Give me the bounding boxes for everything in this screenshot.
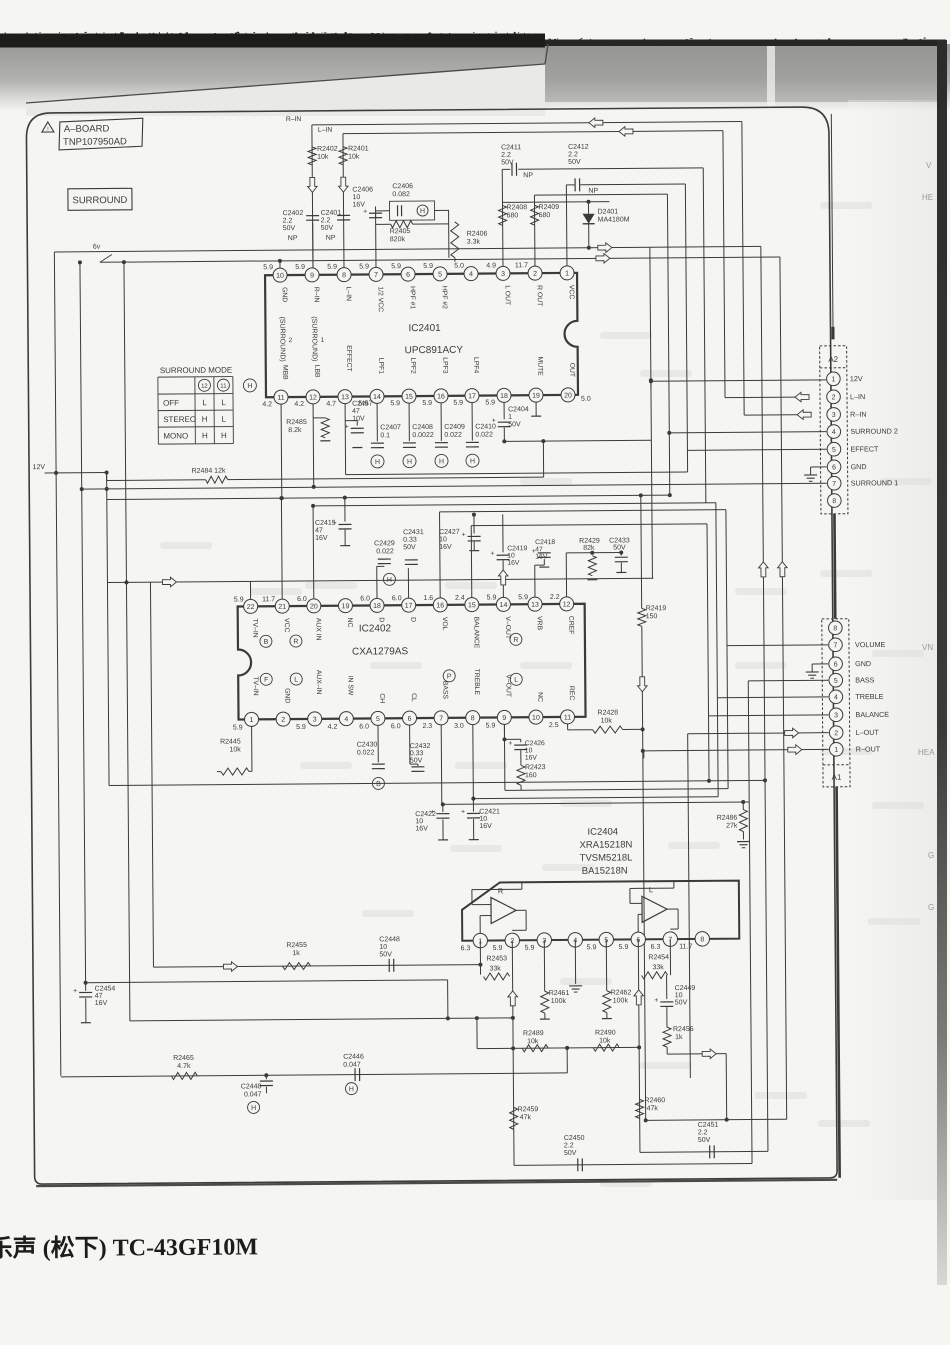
- resistor R2460 47k: [636, 1099, 644, 1118]
- IC2402 pin 21: [275, 599, 289, 613]
- svg-text:L: L: [221, 398, 226, 407]
- wire balance to A1: [709, 714, 829, 717]
- svg-text:2: 2: [533, 271, 537, 278]
- connector A2 dashed box: [820, 346, 848, 514]
- svg-text:6v: 6v: [93, 244, 101, 251]
- svg-text:4.7: 4.7: [326, 401, 336, 408]
- wire pin1 top vertical: [565, 185, 568, 266]
- svg-text:+: +: [508, 740, 512, 747]
- svg-text:22: 22: [247, 604, 255, 611]
- svg-text:MBB: MBB: [281, 365, 288, 380]
- svg-text:4: 4: [344, 716, 348, 723]
- warning triangle symbol: [42, 122, 54, 132]
- svg-text:GND: GND: [283, 688, 290, 703]
- svg-text:B: B: [376, 781, 381, 788]
- svg-text:5.9: 5.9: [295, 264, 305, 271]
- svg-text:R2454: R2454: [648, 954, 669, 961]
- IC2402 pin 13: [528, 597, 542, 611]
- svg-text:R: R: [293, 639, 298, 646]
- connector A1 pin 6 GND: [829, 657, 843, 671]
- svg-text:680: 680: [539, 212, 551, 219]
- svg-text:R2409: R2409: [539, 204, 560, 211]
- svg-text:5.9: 5.9: [263, 264, 273, 271]
- wire nested y512: [440, 510, 726, 512]
- capacitor C2446 0.047 series: [354, 1068, 356, 1081]
- capacitor C2431 0.33 50V: [407, 568, 409, 598]
- svg-text:A2: A2: [828, 355, 838, 364]
- svg-text:10: 10: [532, 715, 540, 722]
- svg-text:乐声 (松下) TC-43GF10M: 乐声 (松下) TC-43GF10M: [0, 1232, 258, 1262]
- IC2404 pin 7: [663, 932, 678, 947]
- scan top black band: [0, 34, 545, 48]
- svg-text:C2429: C2429: [374, 540, 395, 547]
- IC2402 pin 16: [433, 598, 447, 612]
- wire x642 drop bottom: [642, 626, 646, 1120]
- svg-text:7: 7: [439, 715, 443, 722]
- svg-text:6.3: 6.3: [651, 944, 661, 951]
- wire bass to A1: [748, 679, 828, 682]
- svg-text:C2451: C2451: [698, 1122, 719, 1129]
- svg-text:11: 11: [220, 384, 227, 390]
- capacitor C2406 10 16V: [369, 212, 382, 214]
- svg-text:STEREO: STEREO: [163, 415, 196, 424]
- arrow on second rail: [596, 253, 610, 263]
- svg-text:C2407: C2407: [380, 424, 401, 431]
- IC2402 pin 3: [308, 712, 322, 726]
- svg-text:2: 2: [832, 394, 836, 401]
- connector A2 pin 2 L–IN: [827, 390, 841, 404]
- wire L-IN to A2 pin2 horizontal: [725, 396, 809, 399]
- node pin12 surround1: [312, 485, 316, 489]
- resistor R2402 10k: [308, 147, 316, 165]
- capacitor C2421 10 16V: [472, 799, 474, 812]
- svg-text:C2415: C2415: [315, 520, 336, 527]
- wire x564 drop: [566, 1048, 568, 1073]
- capacitor C2404 1 50V: [503, 402, 505, 419]
- svg-text:8.2k: 8.2k: [288, 427, 302, 434]
- wire long vertical x783: [780, 257, 787, 1119]
- resistor R2490 10k: [593, 1044, 619, 1051]
- wire pin6 drop: [638, 939, 640, 1152]
- svg-text:L–OUT: L–OUT: [856, 728, 880, 737]
- svg-text:HEA: HEA: [918, 748, 935, 757]
- audio IC IC2402 CXA1279AS body: [238, 604, 586, 720]
- wire R2484 line right: [228, 477, 544, 479]
- IC2402 pin 6: [402, 711, 416, 725]
- node C2404 bottom: [502, 439, 506, 443]
- svg-text:19: 19: [532, 393, 540, 400]
- svg-text:L: L: [514, 677, 518, 684]
- wire left vertical x108: [107, 473, 109, 786]
- wire C2457 stub: [356, 421, 358, 426]
- wire L-IN horizontal: [343, 131, 723, 134]
- op-amp L of IC2404: [642, 896, 667, 922]
- node D2401 top: [586, 200, 590, 204]
- capacitor C2449 10 50V: [666, 975, 668, 999]
- arrow on 6v rail: [598, 243, 612, 253]
- svg-text:VOLUME: VOLUME: [855, 640, 886, 649]
- node pin22 feed x127: [124, 580, 128, 584]
- resistor R2489 10k: [522, 1045, 548, 1052]
- node y799 C2421: [471, 797, 475, 801]
- svg-text:6: 6: [408, 716, 412, 723]
- svg-text:50V: 50V: [321, 225, 334, 232]
- svg-text:2.2: 2.2: [550, 594, 560, 601]
- node pin21: [279, 496, 283, 500]
- IC2402 pin 11: [560, 710, 574, 724]
- arrow on R-IN wire: [589, 118, 603, 128]
- svg-text:2.2: 2.2: [564, 1142, 574, 1149]
- wire pin3 top vertical: [501, 169, 504, 266]
- svg-text:160: 160: [525, 772, 537, 779]
- node surround1 x108: [105, 487, 109, 491]
- arrow near A2 pin2: [795, 392, 809, 402]
- arrow on pin22 feed: [162, 577, 176, 587]
- wire loop bottom: [667, 1053, 726, 1055]
- svg-text:6.0: 6.0: [360, 595, 370, 602]
- svg-text:R2453: R2453: [486, 955, 507, 962]
- svg-text:H: H: [202, 431, 208, 440]
- svg-text:8: 8: [832, 498, 836, 505]
- node bus783 x764: [763, 778, 767, 782]
- svg-text:6: 6: [832, 464, 836, 471]
- wire treble riser: [716, 698, 719, 797]
- svg-text:10k: 10k: [599, 1038, 611, 1045]
- wire pin20 riser: [312, 506, 315, 599]
- H mark near table: [243, 379, 256, 392]
- svg-text:4.7k: 4.7k: [177, 1063, 191, 1070]
- svg-text:OFF: OFF: [163, 398, 179, 407]
- svg-text:8: 8: [342, 272, 346, 279]
- svg-text:5.9: 5.9: [296, 724, 306, 731]
- wire lout to A1: [688, 733, 829, 734]
- svg-text:3: 3: [832, 412, 836, 419]
- connector A1 pin 4 TREBLE: [829, 690, 843, 704]
- svg-text:5: 5: [438, 271, 442, 278]
- svg-text:17: 17: [468, 393, 476, 400]
- svg-text:+: +: [73, 988, 77, 995]
- svg-text:50V: 50V: [410, 757, 423, 764]
- svg-text:NP: NP: [588, 188, 598, 195]
- resistor R2456 1k: [663, 1027, 671, 1047]
- svg-text:5.9: 5.9: [391, 263, 401, 270]
- connector A2 pin 6 GND: [827, 460, 841, 474]
- svg-text:+: +: [654, 997, 658, 1004]
- svg-text:3.0: 3.0: [454, 723, 464, 730]
- resistor R2405 820k: [391, 221, 413, 228]
- arrow near A2 pin3: [797, 410, 811, 420]
- wire lout corner: [688, 734, 691, 1078]
- IC2401 pin 20: [561, 388, 575, 402]
- svg-text:47: 47: [535, 546, 543, 553]
- overlapping page corner (white area below diagonal edge): [26, 64, 545, 116]
- svg-text:A1: A1: [832, 773, 842, 782]
- svg-text:5: 5: [832, 447, 836, 454]
- node pin2 y1018: [511, 1016, 515, 1020]
- IC2404 pin 4: [568, 933, 583, 948]
- svg-text:15: 15: [468, 602, 476, 609]
- svg-text:4.2: 4.2: [262, 401, 272, 408]
- resistor R2459 47k: [510, 1107, 518, 1129]
- wire bus y791: [505, 789, 728, 791]
- wire surround2 row: [107, 495, 670, 499]
- svg-text:16V: 16V: [507, 560, 520, 567]
- svg-text:11: 11: [564, 714, 571, 721]
- connector A2 pin 5 EFFECT: [827, 442, 841, 456]
- wire pin7 drop: [669, 939, 671, 975]
- IC2401 pin 7: [369, 267, 383, 281]
- capacitor C2450 2.2 50V: [577, 1158, 579, 1171]
- svg-text:C2448: C2448: [379, 936, 400, 943]
- node pin1 y965: [478, 963, 482, 967]
- svg-text:R2455: R2455: [286, 942, 307, 949]
- svg-text:+: +: [345, 424, 349, 431]
- svg-text:4.9: 4.9: [486, 262, 496, 269]
- node y1122 x723: [725, 1118, 729, 1122]
- svg-text:33k: 33k: [652, 964, 664, 971]
- svg-text:(SURROUND): (SURROUND): [278, 317, 285, 362]
- wire y980 rail: [86, 980, 448, 983]
- svg-text:C2412: C2412: [568, 144, 589, 151]
- capacitor C2448 0.047 shunt: [264, 1073, 268, 1077]
- svg-text:5.9: 5.9: [619, 944, 629, 951]
- resistor R2453 33k: [484, 973, 510, 980]
- wire rout corner: [643, 751, 645, 758]
- svg-text:100k: 100k: [613, 997, 629, 1004]
- svg-text:12V: 12V: [850, 374, 863, 383]
- svg-text:2.2: 2.2: [283, 218, 293, 225]
- svg-text:R2459: R2459: [518, 1106, 539, 1113]
- svg-text:R2423: R2423: [525, 764, 546, 771]
- right margin gray: [848, 100, 937, 1200]
- svg-text:2.3: 2.3: [422, 723, 432, 730]
- svg-text:6.0: 6.0: [392, 595, 402, 602]
- svg-text:R2462: R2462: [611, 989, 632, 996]
- svg-text:AUX–IN: AUX–IN: [315, 670, 322, 695]
- svg-text:1k: 1k: [675, 1034, 683, 1041]
- svg-text:4.2: 4.2: [328, 724, 338, 731]
- wire 6v rail: [54, 246, 760, 252]
- connector A1 pin 1 R–OUT: [829, 742, 843, 756]
- connector A1 pin 3 BALANCE: [829, 708, 843, 722]
- resistor R2419 150: [638, 608, 646, 626]
- svg-text:SURROUND 1: SURROUND 1: [851, 478, 899, 487]
- wire bottom y1154: [640, 1151, 768, 1152]
- svg-text:C2421: C2421: [479, 808, 500, 815]
- wire x445 drop: [447, 980, 449, 1018]
- svg-text:1/2 VCC: 1/2 VCC: [377, 286, 384, 312]
- IC2401 pin 12: [306, 390, 320, 404]
- IC2401 pin 17: [465, 389, 479, 403]
- A-BOARD title box: [59, 118, 143, 150]
- arrow up on x764: [759, 562, 769, 577]
- svg-text:8: 8: [471, 715, 475, 722]
- connector A2 pin 7 SURROUND 1: [827, 476, 841, 490]
- svg-text:6.0: 6.0: [359, 723, 369, 730]
- svg-text:LPF3: LPF3: [441, 357, 448, 374]
- svg-text:1: 1: [508, 414, 512, 421]
- svg-text:R2429: R2429: [579, 538, 600, 545]
- svg-text:LPF1: LPF1: [377, 358, 384, 375]
- svg-text:B: B: [264, 639, 269, 646]
- arrow on pin6 drop: [634, 990, 644, 1005]
- wire C2412 left: [566, 184, 574, 186]
- capacitor C2407 0.1: [376, 403, 378, 441]
- svg-text:6: 6: [406, 272, 410, 279]
- capacitor C2415 47 16V: [344, 498, 346, 522]
- svg-text:1: 1: [834, 747, 838, 754]
- node rout x642: [641, 749, 645, 753]
- svg-text:C2419: C2419: [507, 545, 527, 552]
- wire bass riser: [748, 681, 752, 1164]
- svg-text:50V: 50V: [403, 544, 416, 551]
- svg-text:5.9: 5.9: [525, 945, 535, 952]
- svg-text:(SURROUND): (SURROUND): [310, 316, 317, 361]
- svg-text:47: 47: [95, 993, 103, 1000]
- wire balance riser: [707, 524, 709, 781]
- IC2401 pin 15: [402, 389, 416, 403]
- svg-text:R2405: R2405: [390, 228, 411, 235]
- capacitor C2433 50V: [620, 552, 622, 555]
- wire 12V to A2 pin1: [651, 380, 826, 381]
- svg-text:0.022: 0.022: [475, 431, 493, 438]
- svg-text:C2430: C2430: [357, 741, 378, 748]
- resistor R2409 680: [531, 205, 539, 225]
- svg-text:4: 4: [832, 429, 836, 436]
- svg-text:H: H: [202, 415, 208, 424]
- wire L-IN vertical: [343, 134, 344, 268]
- svg-text:R2460: R2460: [645, 1097, 666, 1104]
- IC2401 pin 5: [433, 267, 447, 281]
- svg-text:R–OUT: R–OUT: [856, 744, 881, 753]
- svg-text:33k: 33k: [489, 965, 501, 972]
- wire left vertical x151: [150, 582, 153, 967]
- svg-text:BASS: BASS: [855, 675, 874, 684]
- wire x653 drop: [650, 380, 652, 389]
- svg-text:16V: 16V: [352, 201, 365, 208]
- svg-text:50V: 50V: [675, 999, 688, 1006]
- svg-text:C2410: C2410: [475, 423, 496, 430]
- node bus783 x708: [707, 779, 711, 783]
- wire into A2 top: [831, 114, 833, 339]
- IC2402 internal circled letters: [260, 635, 272, 647]
- svg-text:R2402: R2402: [317, 146, 338, 153]
- svg-text:R2484 12k: R2484 12k: [192, 468, 226, 475]
- svg-text:C2406: C2406: [352, 186, 373, 193]
- wire loop right: [725, 1054, 728, 1120]
- svg-text:EFFECT: EFFECT: [345, 345, 352, 371]
- svg-text:0.0022: 0.0022: [412, 432, 434, 439]
- svg-text:+: +: [491, 550, 495, 557]
- svg-text:MA4180M: MA4180M: [598, 216, 630, 223]
- capacitor C2426 10 16V: [503, 724, 505, 739]
- svg-text:5.9: 5.9: [390, 400, 400, 407]
- scan gray band under top edge: [0, 44, 950, 110]
- node surround1 x83: [80, 487, 84, 491]
- ground at A1 pin6: [812, 663, 828, 665]
- svg-text:SURROUND: SURROUND: [72, 195, 127, 206]
- wire pin2 drop: [512, 940, 514, 1165]
- svg-text:5.9: 5.9: [453, 400, 463, 407]
- svg-text:16V: 16V: [95, 1000, 108, 1007]
- wire x707 down: [703, 168, 706, 503]
- svg-text:D: D: [378, 617, 385, 622]
- svg-text:BALANCE: BALANCE: [472, 617, 479, 649]
- svg-text:5.9: 5.9: [486, 722, 496, 729]
- resistor R2429 82k: [588, 556, 596, 576]
- svg-text:10k: 10k: [317, 154, 329, 161]
- IC2402 pin 8: [466, 711, 480, 725]
- wire box right: [435, 209, 449, 211]
- wire C2457 link: [345, 420, 357, 422]
- svg-text:10: 10: [379, 944, 387, 951]
- wire A2 to A1 link: [833, 514, 836, 619]
- svg-text:18: 18: [373, 603, 381, 610]
- svg-text:V: V: [926, 161, 932, 170]
- wire C2411 right: [518, 168, 703, 169]
- svg-text:P: P: [447, 673, 452, 680]
- IC2401 pin 8: [337, 268, 351, 282]
- svg-text:1: 1: [321, 337, 325, 344]
- svg-text:LBB: LBB: [313, 365, 320, 378]
- svg-text:2: 2: [834, 730, 838, 737]
- svg-text:TV–IN: TV–IN: [252, 676, 259, 695]
- wire left vertical x127: [124, 262, 130, 1021]
- svg-text:16V: 16V: [439, 544, 452, 551]
- arrow up on x783: [778, 562, 788, 577]
- resistor R2486 27k: [741, 800, 745, 804]
- svg-text:AUX IN: AUX IN: [314, 618, 321, 641]
- svg-text:5.9: 5.9: [422, 400, 432, 407]
- svg-text:4: 4: [834, 694, 838, 701]
- svg-text:50V: 50V: [568, 159, 581, 166]
- wire left vertical x83: [80, 262, 86, 982]
- svg-text:H: H: [420, 208, 425, 215]
- svg-text:BA15218N: BA15218N: [582, 865, 628, 876]
- svg-text:+: +: [462, 532, 466, 539]
- wire pin22 riser: [249, 581, 251, 599]
- svg-text:1.6: 1.6: [423, 595, 433, 602]
- svg-text:EFFECT: EFFECT: [850, 444, 879, 453]
- node 6v x127: [122, 260, 126, 264]
- svg-text:2.2: 2.2: [321, 217, 331, 224]
- svg-text:1: 1: [831, 376, 835, 383]
- svg-text:R2489: R2489: [523, 1030, 544, 1037]
- svg-text:3: 3: [834, 712, 838, 719]
- resistor R2462 100k: [605, 940, 607, 991]
- wire pin16 riser: [439, 512, 442, 598]
- svg-text:50V: 50V: [283, 225, 296, 232]
- wire CREF net: [565, 553, 567, 597]
- wire R-IN vertical: [312, 125, 313, 268]
- svg-text:10V: 10V: [352, 416, 365, 423]
- resistor R2406 3.3k: [451, 222, 459, 258]
- IC2401 pin 11: [274, 390, 288, 404]
- svg-text:R2408: R2408: [507, 204, 528, 211]
- node 12V drop x653: [649, 378, 653, 382]
- node pin20 IC2402: [311, 504, 315, 508]
- capacitor C2429 0.022: [376, 566, 378, 598]
- wire box left: [376, 210, 390, 212]
- svg-text:TNP107950AD: TNP107950AD: [63, 136, 127, 148]
- svg-text:16: 16: [436, 602, 444, 609]
- node pin6 y1049: [637, 1045, 641, 1049]
- svg-text:IC2402: IC2402: [359, 623, 392, 634]
- wire effect row: [346, 472, 688, 475]
- svg-text:D: D: [409, 617, 416, 622]
- svg-text:VRB: VRB: [536, 616, 543, 630]
- svg-text:R2465: R2465: [173, 1055, 194, 1062]
